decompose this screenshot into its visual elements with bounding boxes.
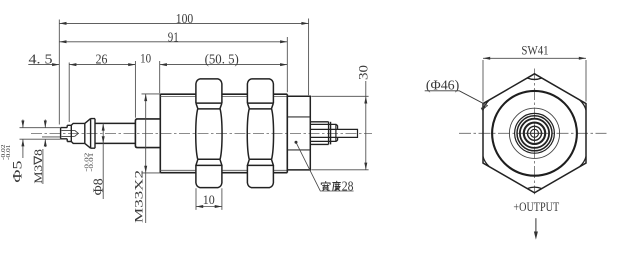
rear block 30x28 [287, 96, 310, 170]
Phi8 dim vertical [102, 123, 104, 199]
thread minor lines M33X2 [160, 97, 287, 171]
du [333, 181, 341, 190]
main body outline top segments [160, 93, 287, 95]
svg-text:+OUTPUT: +OUTPUT [513, 200, 559, 214]
bottom 10 ext lines [196, 188, 222, 210]
connector barrel [310, 122, 328, 145]
chamfer circle [492, 91, 577, 176]
dim line 26 [69, 64, 135, 66]
dim line 10 outside tails + 50.5 [128, 64, 287, 66]
stub1 Phi5 tip [61, 128, 68, 139]
svg-text:SW41: SW41 [521, 42, 548, 57]
ext line 26-start [68, 63, 70, 123]
svg-text:M33X2: M33X2 [132, 170, 145, 223]
inner circle [509, 108, 559, 158]
svg-text:(50. 5): (50. 5) [205, 51, 239, 66]
svg-text:(Φ46): (Φ46) [426, 77, 459, 92]
ext line 26-end [134, 61, 136, 118]
connector collar [331, 124, 338, 141]
svg-text:26: 26 [96, 52, 108, 67]
leader dot [295, 141, 298, 144]
kuan [321, 182, 330, 191]
Phi5 / M3 ext lines [20, 128, 61, 140]
leader kuandu28 [296, 142, 354, 191]
svg-text:Φ8: Φ8 [91, 178, 106, 195]
center cross [526, 125, 543, 142]
cone transition [85, 119, 91, 149]
main body right face [286, 94, 288, 173]
hexagon SW41 [483, 74, 586, 193]
pin core lines through barrel [310, 129, 337, 137]
note kuandu 28 [321, 181, 340, 190]
main body left face [159, 94, 161, 173]
connector rings [515, 113, 555, 153]
rear block inner lines [288, 117, 310, 150]
Phi5 dim vertical [22, 120, 24, 159]
svg-text:10: 10 [203, 192, 215, 207]
arrows left view [59, 22, 66, 25]
ext line 91-end [286, 37, 288, 92]
M3 dim vertical [44, 120, 46, 148]
centerline (axis) [31, 132, 372, 134]
shaft Phi8 [95, 123, 135, 143]
M3 tapped hole (hidden) [61, 130, 74, 136]
30 dim vertical [365, 81, 367, 170]
ext line 100-end [308, 19, 310, 96]
stub3 section with chamfer [71, 123, 85, 143]
svg-text:100: 100 [176, 11, 194, 26]
hex nut 2 [247, 79, 273, 188]
svg-text:4. 5: 4. 5 [29, 51, 53, 66]
bottom 10 dim line [196, 206, 222, 208]
hex nut 1 [196, 79, 222, 188]
ext line 50.5-start [159, 61, 161, 93]
svg-text:28: 28 [342, 179, 354, 194]
SW41 dim [483, 58, 586, 101]
connector flange [330, 122, 332, 145]
dim line 100 [59, 22, 308, 24]
stub2 collar [67, 125, 71, 141]
dim line 4.5 [28, 64, 59, 66]
dim line 91 [59, 41, 287, 43]
ext line left reference [58, 20, 60, 125]
M33X2 ext lines [142, 94, 161, 173]
svg-text:91: 91 [168, 29, 179, 44]
svg-text:M3∇8: M3∇8 [33, 149, 45, 184]
M3 label underline [42, 149, 44, 184]
pin [338, 129, 358, 137]
main body outline bottom segments [160, 172, 287, 174]
svg-text:10: 10 [140, 51, 151, 65]
crosshair centerlines [459, 132, 607, 134]
svg-text:Φ5: Φ5 [10, 161, 25, 183]
collar disc [91, 119, 95, 149]
corner chamfer arcs [483, 78, 586, 189]
30 ext lines [311, 96, 368, 170]
step block 10 wide [135, 119, 160, 148]
rotated labels [0, 65, 370, 223]
svg-text:-0.02: -0.02 [0, 145, 7, 161]
svg-text:30: 30 [355, 65, 370, 80]
collar diameter lines through barrel [310, 124, 330, 141]
svg-text:-0.02: -0.02 [84, 153, 90, 172]
M33X2 dim vertical [145, 94, 147, 223]
